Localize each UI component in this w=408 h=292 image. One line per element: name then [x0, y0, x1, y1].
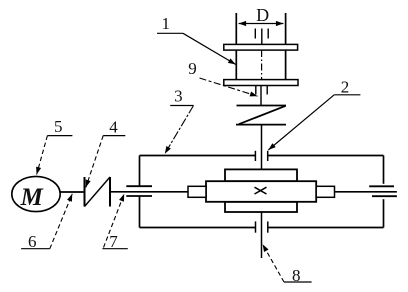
wire drum shaft stub (between drum flange and spring): [256, 86, 267, 106]
label 3 (gearbox housing): [165, 87, 194, 154]
drum D1 bottom flange: [224, 80, 298, 86]
motor M1 electric motor body: [12, 176, 60, 211]
worm wheel W1 lower flange: [225, 202, 297, 212]
dimension D leader line with arrows: [239, 23, 284, 25]
svg-text:9: 9: [188, 59, 197, 78]
label 8 (output shaft): [263, 244, 312, 285]
worm wheel W1 rim: [206, 181, 316, 202]
worm wheel W1 upper flange: [225, 169, 297, 181]
wire vertical shaft upper segment (spring to worm wheel): [261, 125, 263, 170]
label 5 (motor): [37, 117, 73, 175]
wire vertical shaft lower segment (output below gearbox): [261, 212, 263, 258]
wire shaft: motor to coupling: [60, 191, 84, 193]
spring Z1 (elastic element on vertical shaft): [236, 106, 286, 125]
svg-text:M: M: [20, 184, 44, 211]
label 9 (drum shaft): [188, 59, 257, 96]
svg-text:1: 1: [161, 14, 170, 33]
label 4 (coupling): [86, 118, 126, 188]
label 1 (drum): [157, 14, 236, 64]
bearing B4 (bottom wall, vertical shaft): [256, 221, 268, 232]
drum D1 side walls: [236, 13, 285, 80]
svg-text:3: 3: [174, 87, 183, 106]
svg-text:2: 2: [341, 78, 350, 97]
svg-text:5: 5: [54, 117, 63, 136]
label 6 (motor shaft): [21, 194, 72, 251]
label 7 (input shaft bearing): [102, 194, 127, 251]
wire drum shaft stub above (ticks below dimension): [255, 29, 268, 45]
bearing B3 (top wall, vertical shaft): [255, 151, 267, 161]
hub H2 (right journal on shaft): [316, 186, 334, 197]
hub H1 (left journal on shaft): [188, 186, 206, 197]
worm wheel W1 cross mark: [255, 187, 267, 194]
bearing B2 (right wall, input shaft): [369, 186, 397, 196]
coupling MF1 (two bars with diagonal): [85, 177, 111, 207]
svg-text:D: D: [256, 5, 269, 25]
label 2 (vertical shaft bearing): [268, 78, 360, 151]
wire shaft: coupling to right bearing (input shaft through gearbox): [110, 191, 397, 193]
gearbox housing (walls with shaft gaps): [140, 156, 384, 228]
svg-text:4: 4: [109, 118, 118, 137]
drum D1 top flange: [224, 44, 298, 50]
drum D1 centerline: [261, 50, 263, 85]
bearing B1 (left wall, input shaft): [126, 186, 152, 196]
